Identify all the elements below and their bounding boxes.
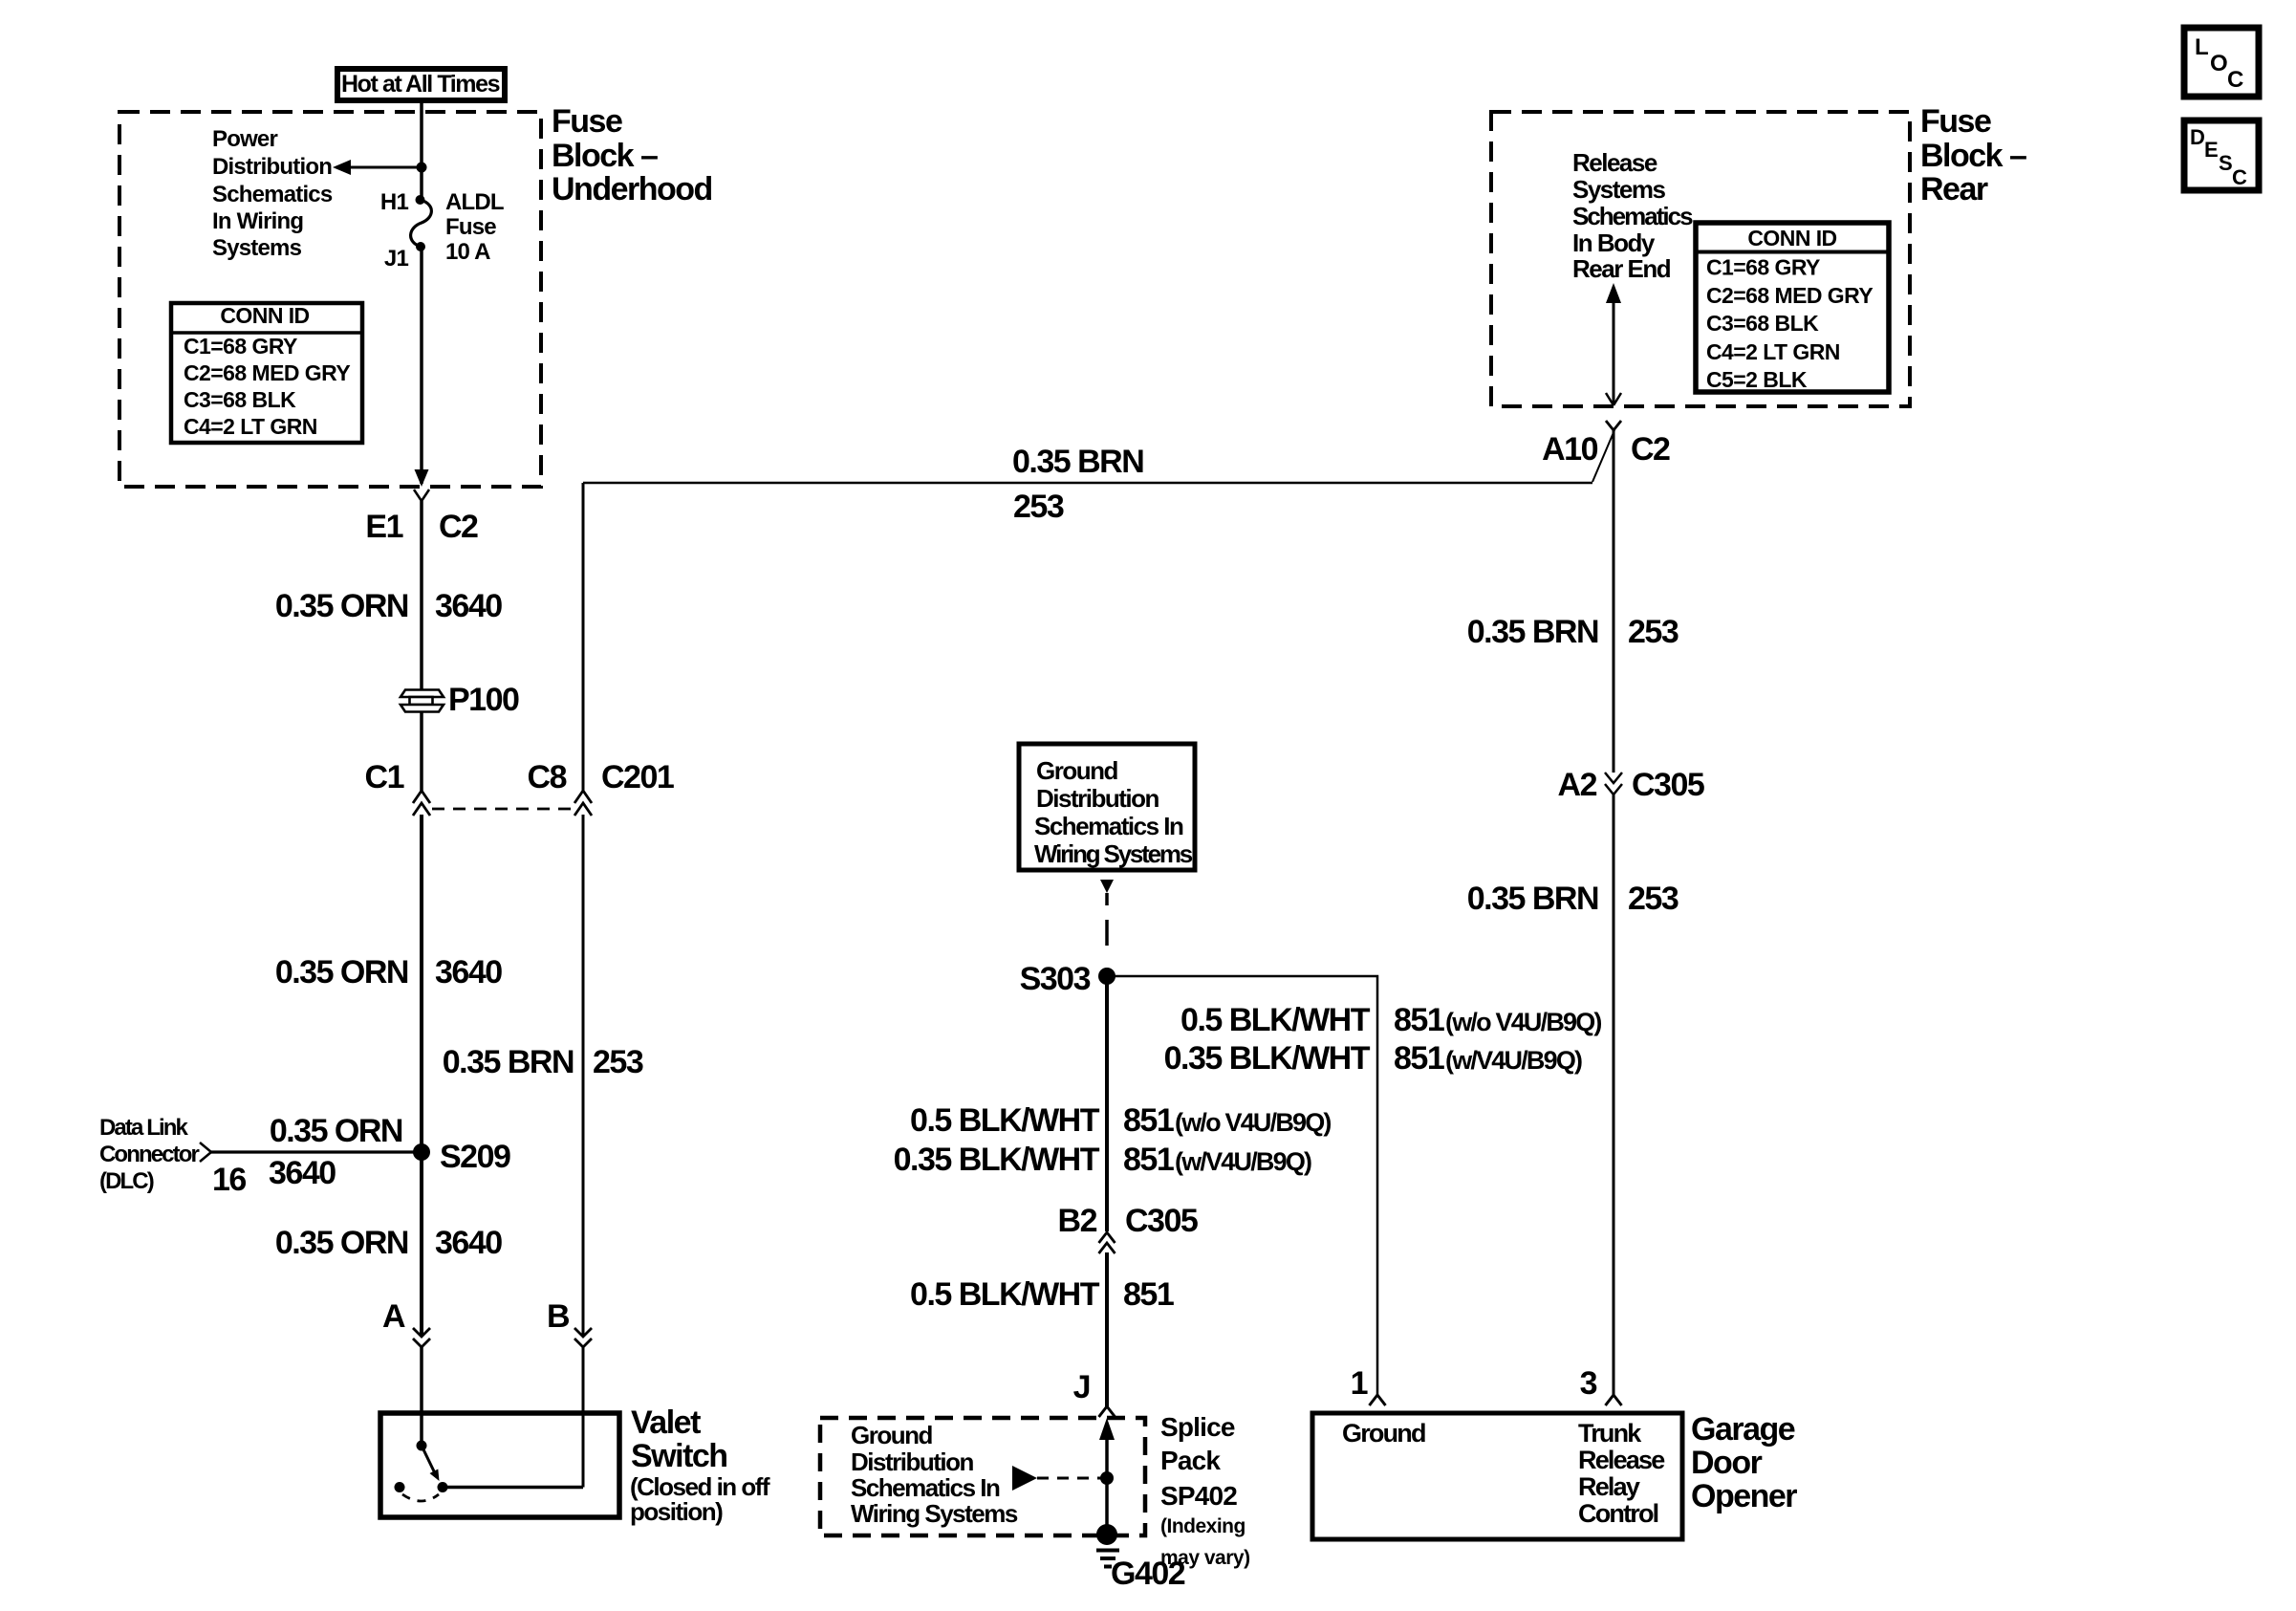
svg-text:253: 253 bbox=[1628, 614, 1679, 650]
svg-text:Distribution: Distribution bbox=[1036, 784, 1159, 813]
connector C1 bbox=[365, 759, 430, 816]
switch pivot bbox=[417, 1441, 427, 1451]
svg-text:0.5 BLK/WHT: 0.5 BLK/WHT bbox=[1180, 1002, 1371, 1038]
svg-text:0.5 BLK/WHT: 0.5 BLK/WHT bbox=[910, 1276, 1100, 1313]
svg-text:Switch: Switch bbox=[631, 1438, 727, 1474]
svg-text:Wiring Systems: Wiring Systems bbox=[851, 1499, 1018, 1528]
pin 1 bbox=[1351, 1365, 1386, 1405]
svg-text:Connector: Connector bbox=[99, 1142, 199, 1167]
connector B2/C305 bbox=[1058, 1203, 1198, 1253]
svg-text:Systems: Systems bbox=[1572, 175, 1665, 204]
branch wire S303 to garage pin 1 bbox=[1107, 976, 1377, 1395]
svg-text:Power: Power bbox=[212, 126, 277, 152]
Trunk Release Relay Control pin label bbox=[1578, 1419, 1665, 1528]
svg-text:P100: P100 bbox=[448, 682, 519, 718]
svg-text:0.35 ORN: 0.35 ORN bbox=[275, 588, 408, 624]
svg-text:(Indexing: (Indexing bbox=[1160, 1515, 1245, 1537]
svg-text:Data Link: Data Link bbox=[99, 1115, 188, 1141]
svg-text:G402: G402 bbox=[1111, 1556, 1185, 1592]
splice S303 bbox=[1098, 968, 1116, 985]
splice S209 bbox=[413, 1143, 430, 1161]
svg-text:(DLC): (DLC) bbox=[99, 1168, 154, 1194]
svg-text:0.35 ORN: 0.35 ORN bbox=[275, 954, 408, 991]
svg-text:3640: 3640 bbox=[435, 1225, 502, 1261]
connector J bbox=[1073, 1369, 1116, 1417]
svg-text:Release: Release bbox=[1578, 1446, 1665, 1474]
pin 3 bbox=[1580, 1365, 1622, 1405]
svg-text:3640: 3640 bbox=[435, 954, 502, 991]
svg-text:C: C bbox=[2227, 67, 2243, 93]
splice pack SP402 dashed box bbox=[820, 1418, 1145, 1535]
svg-text:0.35 BRN: 0.35 BRN bbox=[1467, 881, 1598, 917]
svg-text:253: 253 bbox=[1628, 881, 1679, 917]
svg-text:0.35 BLK/WHT: 0.35 BLK/WHT bbox=[894, 1142, 1100, 1178]
svg-text:E1: E1 bbox=[365, 509, 402, 545]
svg-text:S303: S303 bbox=[1020, 961, 1091, 997]
svg-text:B2: B2 bbox=[1058, 1203, 1097, 1239]
ground distribution text in dashed box bbox=[851, 1421, 1018, 1528]
svg-text:C1=68 GRY: C1=68 GRY bbox=[184, 334, 297, 359]
wire A10 down to A2 bbox=[1613, 430, 1615, 773]
svg-text:D: D bbox=[2190, 125, 2205, 149]
ground G402 bbox=[1096, 1524, 1185, 1592]
svg-text:C4=2 LT GRN: C4=2 LT GRN bbox=[184, 414, 317, 439]
node J1 bbox=[416, 242, 425, 251]
svg-text:C2=68 MED GRY: C2=68 MED GRY bbox=[1706, 283, 1873, 308]
grommet P100 bbox=[401, 682, 519, 718]
splice junction dot bbox=[1100, 1471, 1114, 1485]
svg-text:Schematics: Schematics bbox=[1572, 202, 1693, 230]
double arrow inside rear fuse block bbox=[1606, 283, 1621, 405]
fuse F (ALDL Fuse 10A) bbox=[411, 200, 432, 247]
svg-text:0.35 BRN: 0.35 BRN bbox=[443, 1044, 574, 1080]
svg-text:H1: H1 bbox=[380, 189, 409, 215]
svg-text:C8: C8 bbox=[528, 759, 567, 795]
wire E1 to P100 bbox=[420, 501, 423, 690]
svg-text:0.35 BRN: 0.35 BRN bbox=[1467, 614, 1598, 650]
svg-text:0.35 ORN: 0.35 ORN bbox=[275, 1225, 408, 1261]
svg-text:C201: C201 bbox=[601, 759, 674, 795]
wire S303 down to B2 bbox=[1105, 976, 1109, 1231]
wire contact to B bbox=[443, 1486, 583, 1490]
svg-text:0.35 BLK/WHT: 0.35 BLK/WHT bbox=[1164, 1040, 1371, 1077]
switch contact dot bbox=[438, 1482, 448, 1492]
wire A into valet switch bbox=[420, 1347, 423, 1446]
switch travel dashed arc bbox=[402, 1494, 439, 1501]
svg-text:(w/o V4U/B9Q): (w/o V4U/B9Q) bbox=[1175, 1108, 1331, 1137]
valet switch S (component box and name label) bbox=[380, 1404, 770, 1526]
Hot at All Times power label box bbox=[337, 69, 505, 100]
svg-text:Schematics In: Schematics In bbox=[1034, 812, 1183, 840]
wire C201 branch vertical bbox=[582, 483, 585, 791]
svg-text:Door: Door bbox=[1691, 1445, 1763, 1481]
svg-text:16: 16 bbox=[212, 1162, 246, 1198]
switch blade bbox=[422, 1446, 436, 1475]
svg-text:3640: 3640 bbox=[269, 1155, 336, 1191]
svg-text:3: 3 bbox=[1580, 1365, 1597, 1402]
svg-text:851: 851 bbox=[1394, 1002, 1444, 1038]
svg-text:Systems: Systems bbox=[212, 235, 302, 261]
arrow below ground distribution box bbox=[1100, 880, 1114, 893]
dashed wire to S303 bbox=[1105, 893, 1109, 905]
connector C8 / C201 bbox=[528, 759, 674, 816]
svg-text:S: S bbox=[2219, 151, 2233, 175]
svg-text:CONN ID: CONN ID bbox=[1747, 226, 1836, 250]
svg-text:C305: C305 bbox=[1632, 767, 1704, 803]
svg-text:Rear End: Rear End bbox=[1572, 254, 1671, 283]
wire C8 down to B bbox=[582, 815, 585, 1336]
CONN ID table (underhood) bbox=[171, 303, 362, 443]
garage door opener (component box and name label) bbox=[1312, 1411, 1797, 1539]
svg-text:C1=68 GRY: C1=68 GRY bbox=[1706, 255, 1820, 280]
svg-text:253: 253 bbox=[1013, 489, 1064, 525]
svg-text:Schematics In: Schematics In bbox=[851, 1473, 1000, 1502]
ground distribution schematics reference box bbox=[1019, 744, 1195, 870]
dashed connector link C1 to C8 bbox=[432, 808, 574, 811]
svg-text:O: O bbox=[2210, 51, 2228, 76]
svg-text:L: L bbox=[2195, 34, 2209, 60]
svg-text:253: 253 bbox=[593, 1044, 643, 1080]
wire C1 down to S209 bbox=[420, 815, 423, 1336]
connector B bbox=[547, 1298, 592, 1347]
node junction dot bbox=[417, 163, 427, 173]
svg-text:Distribution: Distribution bbox=[212, 154, 332, 180]
svg-text:851: 851 bbox=[1123, 1102, 1174, 1139]
svg-text:(w/o V4U/B9Q): (w/o V4U/B9Q) bbox=[1445, 1008, 1601, 1036]
svg-text:Ground: Ground bbox=[1342, 1419, 1425, 1448]
svg-text:In Wiring: In Wiring bbox=[212, 208, 303, 234]
svg-text:C1: C1 bbox=[365, 759, 404, 795]
svg-text:851: 851 bbox=[1394, 1040, 1444, 1077]
fuse block underhood dashed box bbox=[119, 112, 541, 487]
svg-text:10 A: 10 A bbox=[445, 239, 490, 265]
svg-text:Valet: Valet bbox=[631, 1404, 701, 1441]
svg-text:Garage: Garage bbox=[1691, 1411, 1795, 1448]
Release Systems Schematics In Body Rear End text bbox=[1572, 148, 1693, 283]
svg-text:CONN ID: CONN ID bbox=[220, 303, 309, 328]
svg-text:C3=68 BLK: C3=68 BLK bbox=[184, 387, 296, 412]
svg-text:Ground: Ground bbox=[1036, 756, 1117, 785]
connector A bbox=[382, 1298, 430, 1347]
svg-text:Fuse: Fuse bbox=[552, 103, 622, 140]
svg-text:(w/V4U/B9Q): (w/V4U/B9Q) bbox=[1175, 1147, 1311, 1176]
wire B into valet switch bbox=[582, 1347, 585, 1488]
svg-text:C305: C305 bbox=[1125, 1203, 1198, 1239]
svg-text:Control: Control bbox=[1578, 1499, 1658, 1528]
splice pack internal wire with up arrow bbox=[1099, 1418, 1115, 1535]
svg-text:A: A bbox=[382, 1298, 405, 1335]
svg-text:Underhood: Underhood bbox=[552, 171, 712, 207]
svg-text:Distribution: Distribution bbox=[851, 1448, 973, 1476]
connector A10/C2 bbox=[1542, 421, 1670, 468]
connector E1/C2 bbox=[365, 490, 478, 545]
svg-text:0.5 BLK/WHT: 0.5 BLK/WHT bbox=[910, 1102, 1100, 1139]
svg-text:Rear: Rear bbox=[1920, 171, 1988, 207]
wire 0.35 BRN 253 horizontal run bbox=[583, 482, 1592, 485]
svg-text:Fuse: Fuse bbox=[445, 214, 496, 240]
svg-text:0.35 ORN: 0.35 ORN bbox=[270, 1113, 402, 1149]
svg-text:J1: J1 bbox=[384, 246, 409, 272]
svg-text:Block –: Block – bbox=[1920, 138, 2026, 174]
svg-text:Wiring Systems: Wiring Systems bbox=[1034, 839, 1193, 868]
svg-text:3640: 3640 bbox=[435, 588, 502, 624]
svg-text:S209: S209 bbox=[440, 1139, 510, 1175]
svg-text:Hot at All Times: Hot at All Times bbox=[341, 71, 500, 98]
dashed arrow into splice pack bbox=[1012, 1466, 1101, 1491]
wire arrow to power distribution bbox=[333, 160, 422, 175]
LOC legend box bbox=[2184, 28, 2259, 97]
svg-text:Splice: Splice bbox=[1160, 1412, 1235, 1442]
svg-text:C2: C2 bbox=[439, 509, 478, 545]
svg-text:ALDL: ALDL bbox=[445, 189, 504, 215]
svg-text:C5=2 BLK: C5=2 BLK bbox=[1706, 367, 1808, 392]
diagonal lead to A10 bbox=[1592, 430, 1614, 482]
svg-text:E: E bbox=[2204, 138, 2219, 162]
svg-text:851: 851 bbox=[1123, 1276, 1174, 1313]
svg-text:C: C bbox=[2232, 165, 2247, 189]
wire DLC to S209 bbox=[211, 1150, 422, 1153]
wire P100 down to C1 bbox=[420, 711, 423, 791]
svg-text:Fuse: Fuse bbox=[1920, 103, 1991, 140]
switch open contact dot bbox=[395, 1482, 405, 1492]
svg-text:A2: A2 bbox=[1558, 767, 1597, 803]
DESC box bbox=[2184, 120, 2259, 190]
svg-text:C3=68 BLK: C3=68 BLK bbox=[1706, 311, 1819, 336]
svg-text:Schematics: Schematics bbox=[212, 182, 333, 207]
CONN ID table (rear) bbox=[1696, 223, 1889, 392]
svg-text:0.35 BRN: 0.35 BRN bbox=[1012, 444, 1143, 480]
svg-text:Opener: Opener bbox=[1691, 1478, 1797, 1514]
svg-text:(w/V4U/B9Q): (w/V4U/B9Q) bbox=[1445, 1046, 1582, 1075]
wire J1 down to box edge bbox=[420, 247, 423, 484]
svg-text:C2: C2 bbox=[1631, 431, 1670, 468]
wire from hot box down to H1 bbox=[420, 100, 423, 200]
svg-text:Ground: Ground bbox=[851, 1421, 932, 1449]
svg-text:Pack: Pack bbox=[1160, 1446, 1221, 1475]
svg-text:A10: A10 bbox=[1542, 431, 1597, 468]
svg-text:Relay: Relay bbox=[1578, 1472, 1640, 1501]
svg-text:B: B bbox=[547, 1298, 570, 1335]
svg-text:Block –: Block – bbox=[552, 138, 658, 174]
connector A2/C305 bbox=[1558, 767, 1704, 803]
Data Link Connector (DLC) bbox=[99, 1115, 246, 1198]
svg-text:J: J bbox=[1073, 1369, 1090, 1405]
svg-text:C4=2 LT GRN: C4=2 LT GRN bbox=[1706, 339, 1840, 364]
Power Distribution Schematics In Wiring Systems text bbox=[212, 126, 333, 261]
svg-text:1: 1 bbox=[1351, 1365, 1368, 1402]
svg-text:Trunk: Trunk bbox=[1578, 1419, 1642, 1448]
svg-text:SP402: SP402 bbox=[1160, 1481, 1237, 1511]
svg-text:C2=68 MED GRY: C2=68 MED GRY bbox=[184, 360, 350, 385]
node H1 bbox=[416, 195, 425, 205]
wire A2 down to garage door opener pin 3 bbox=[1613, 795, 1615, 1395]
svg-text:Release: Release bbox=[1572, 148, 1657, 177]
svg-text:In Body: In Body bbox=[1572, 229, 1656, 257]
svg-text:851: 851 bbox=[1123, 1142, 1174, 1178]
svg-text:position): position) bbox=[630, 1497, 723, 1526]
fuse block rear dashed box bbox=[1491, 112, 1910, 406]
